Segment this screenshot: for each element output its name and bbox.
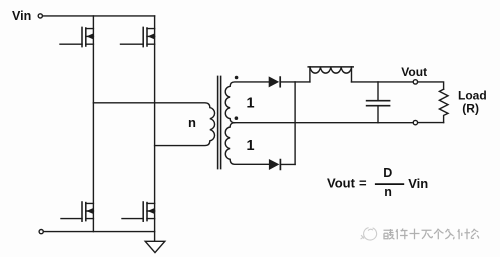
- formula Vout = D/n Vin: [327, 166, 428, 199]
- wire top rail: [43, 15, 154, 17]
- terminal Vin: [38, 14, 42, 18]
- transformer T1 primary: [93, 103, 214, 146]
- svg-text:Load: Load: [458, 89, 487, 103]
- transistor Q1: [60, 27, 93, 46]
- svg-text:Vout: Vout: [401, 65, 427, 79]
- transformer secondary lower: [225, 123, 269, 165]
- transistor Q4: [122, 202, 155, 221]
- wire left bridge leg: [92, 16, 94, 232]
- svg-text:D: D: [383, 166, 392, 180]
- diode D1: [269, 76, 310, 87]
- polarity dot lower: [235, 116, 239, 120]
- watermark icon: [361, 228, 377, 240]
- svg-text:Vout: Vout: [327, 176, 356, 191]
- wire center tap return: [235, 122, 414, 124]
- inductor L1: [308, 67, 353, 82]
- svg-text:1: 1: [247, 138, 255, 154]
- svg-text:n: n: [188, 115, 196, 130]
- capacitor C1: [367, 82, 390, 123]
- transistor Q3: [61, 202, 93, 221]
- polarity dot upper: [235, 76, 239, 80]
- svg-text:1: 1: [247, 96, 255, 112]
- svg-text:n: n: [384, 185, 392, 199]
- svg-text:=: =: [359, 176, 367, 191]
- transistor Q2: [121, 27, 155, 46]
- transformer core: [217, 76, 219, 168]
- svg-text:(R): (R): [462, 102, 479, 116]
- wire output top rail: [352, 81, 414, 83]
- resistor Load R: [439, 89, 448, 122]
- diode D2: [269, 159, 295, 170]
- wire right bridge leg: [154, 16, 156, 241]
- ground: [145, 241, 165, 252]
- watermark text 硬件十万个为什么: [384, 229, 479, 240]
- wire to load top: [418, 82, 444, 89]
- terminal Vout: [413, 80, 417, 84]
- terminal output return: [413, 120, 417, 124]
- terminal bottom-left: [39, 230, 43, 234]
- svg-text:Vin: Vin: [408, 176, 428, 191]
- transformer secondary upper: [225, 82, 268, 123]
- wire bottom rail: [44, 231, 155, 233]
- wire diode junction vertical: [294, 82, 296, 164]
- wire load bottom: [418, 122, 444, 124]
- svg-text:Vin: Vin: [12, 9, 31, 23]
